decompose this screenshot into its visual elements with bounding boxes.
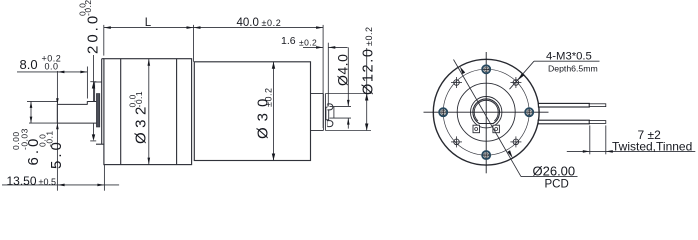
outer circle (gear case) — [433, 59, 539, 165]
7 +-2 dim — [567, 125, 696, 154]
svg-text:-0.2: -0.2 — [83, 0, 93, 16]
wires — [538, 103, 589, 107]
dia 30 dim line — [273, 62, 275, 161]
svg-text:Depth6.5mm: Depth6.5mm — [548, 63, 598, 73]
20.0 0.0/-0.2 — [78, 0, 102, 55]
dia30 arrows — [272, 62, 275, 69]
8.0 dim — [17, 71, 87, 73]
20.0 arrows (outside) — [92, 82, 95, 89]
svg-text:L: L — [145, 17, 152, 29]
svg-text:1.6: 1.6 — [281, 35, 296, 47]
boss circle — [457, 83, 515, 141]
gearbox rear cap line — [176, 59, 178, 165]
svg-text:Twisted,Tinned: Twisted,Tinned — [612, 139, 692, 153]
M3 holes (4x) — [451, 77, 521, 147]
PCD diameter dimension (dia 26) — [454, 60, 522, 177]
dia4 arrows (outside) — [347, 100, 350, 107]
dia32 0.0/-0.1 — [127, 91, 149, 144]
clip tabs — [473, 125, 480, 133]
svg-text:Ø4.0: Ø4.0 — [334, 54, 350, 86]
svg-text:0.0: 0.0 — [45, 62, 59, 72]
gearbox body — [104, 59, 192, 165]
svg-text:4-M3*0.5: 4-M3*0.5 — [546, 51, 592, 63]
svg-text:-0.1: -0.1 — [44, 130, 54, 147]
svg-text:PCD: PCD — [545, 179, 569, 191]
svg-text:Ø12.0: Ø12.0 — [361, 48, 377, 96]
dia12 arrows — [365, 94, 368, 101]
svg-text:±0.2: ±0.2 — [264, 88, 274, 107]
output shaft — [57, 101, 99, 123]
shaft with flat — [473, 99, 500, 124]
arrowheads side view — [30, 26, 369, 186]
svg-text:13.50: 13.50 — [7, 174, 37, 188]
PCD circle — [443, 69, 529, 155]
svg-text:8.0: 8.0 — [20, 57, 38, 72]
M3 callout leader — [534, 60, 600, 62]
8.0 arrows — [57, 71, 64, 74]
gearbox top edge extension to plate — [102, 58, 104, 60]
gearbox front plate — [96, 59, 104, 145]
dia 4 dim — [330, 105, 352, 107]
svg-text:-0.1: -0.1 — [134, 91, 144, 108]
5.0 arrows (outside) — [56, 98, 59, 104]
svg-text:±0.2: ±0.2 — [364, 27, 374, 46]
13.50 arrows — [58, 184, 65, 187]
motor body — [194, 62, 310, 161]
svg-text:-0.03: -0.03 — [19, 128, 29, 150]
svg-text:±0.2: ±0.2 — [262, 18, 282, 28]
rear end cap boss (dia 12) — [311, 94, 328, 131]
20.0 dim — [93, 28, 95, 101]
terminal tab upper — [327, 104, 333, 110]
terminal tab lower — [327, 121, 333, 127]
svg-text:±0.5: ±0.5 — [39, 177, 56, 187]
front bearing boss — [95, 82, 102, 102]
centerlines — [424, 111, 549, 113]
dia32 arrows — [148, 59, 151, 66]
L / 40.0 dimension row — [103, 25, 105, 56]
hub circle — [471, 97, 502, 128]
dia 32 dim line — [148, 59, 150, 165]
L arrows — [104, 26, 111, 29]
svg-text:20.0: 20.0 — [85, 13, 102, 54]
1.6 arrows (outside) — [316, 46, 323, 49]
dia4.0 — [334, 54, 350, 86]
svg-text:40.0: 40.0 — [237, 17, 259, 29]
1.6 dim — [327, 43, 329, 107]
40.0 arrows — [194, 26, 201, 29]
screws (4x) — [439, 65, 533, 159]
dia 12 dim — [326, 93, 372, 95]
svg-text:Ø26.00: Ø26.00 — [533, 163, 576, 178]
13.50 dim — [2, 184, 119, 186]
svg-text:±0.2: ±0.2 — [299, 37, 317, 47]
bearing bar (dark) — [96, 94, 99, 128]
6.0 0.00/-0.03 — [11, 128, 42, 165]
gearbox flange line — [120, 59, 122, 165]
rear bushing (dia 4) — [326, 107, 329, 120]
5.0 0.0/-0.1 — [38, 130, 66, 169]
dia12.0 +-0.2 — [361, 27, 377, 95]
6.0 arrows — [30, 101, 33, 108]
dia30 +-0.2 — [255, 88, 274, 139]
6.0 / 5.0 dims — [27, 100, 57, 102]
